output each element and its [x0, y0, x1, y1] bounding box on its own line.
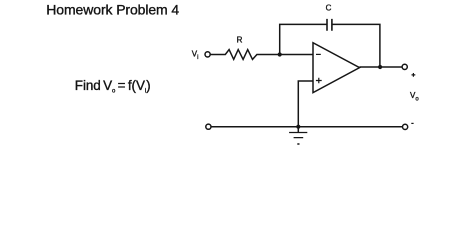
svg-text:C: C: [326, 3, 332, 12]
svg-text:R: R: [237, 36, 243, 45]
svg-text:Vo: Vo: [410, 91, 419, 102]
svg-text:Vi: Vi: [192, 50, 199, 61]
svg-text:Find Vo = f(Vi): Find Vo = f(Vi): [75, 78, 151, 95]
svg-text:Homework Problem 4: Homework Problem 4: [46, 1, 179, 17]
